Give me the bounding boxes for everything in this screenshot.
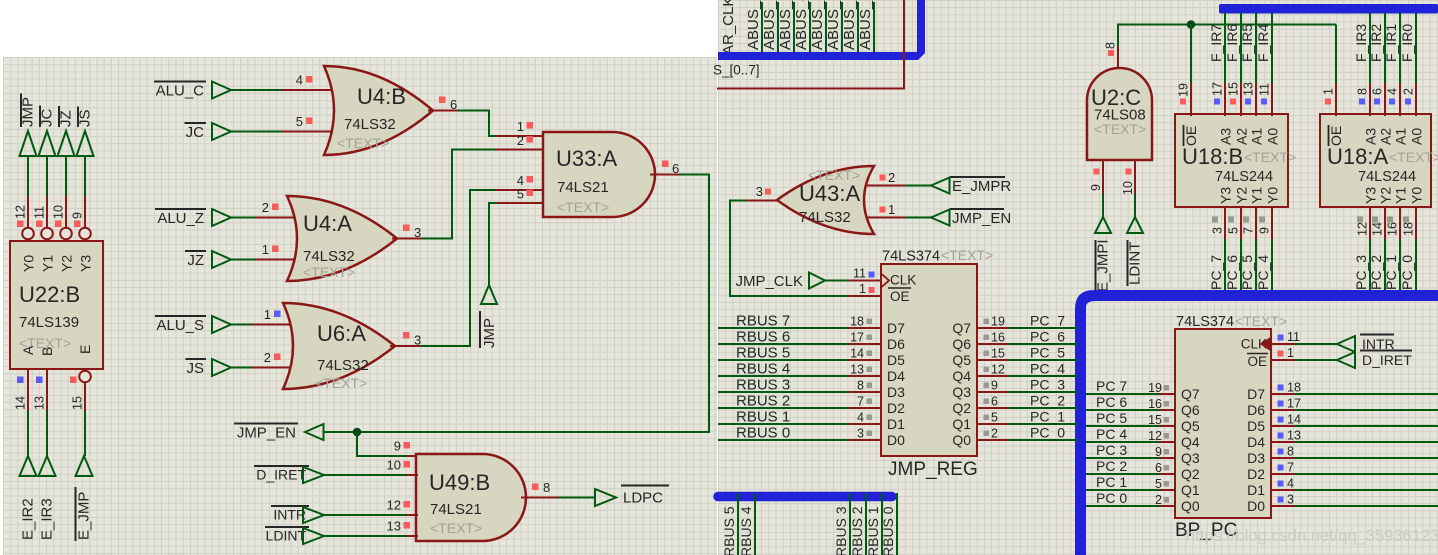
wire JMP_REG Q2 to PC bus / net PC_2 — [977, 393, 1078, 409]
svg-text:2: 2 — [1155, 493, 1162, 507]
svg-text:8: 8 — [857, 379, 864, 393]
svg-text:Q7: Q7 — [952, 320, 971, 336]
svg-text:18: 18 — [1287, 381, 1301, 395]
svg-text:D4: D4 — [887, 368, 905, 384]
svg-text:A1: A1 — [1393, 128, 1409, 145]
svg-text:Q6: Q6 — [952, 336, 971, 352]
svg-text:74LS374: 74LS374 — [1176, 314, 1234, 330]
svg-text:5: 5 — [1155, 477, 1162, 491]
U6:A pin 2 label — [264, 350, 281, 365]
svg-text:9: 9 — [991, 379, 998, 393]
svg-text:9: 9 — [1089, 184, 1103, 191]
svg-text:<TEXT>: <TEXT> — [315, 375, 367, 391]
svg-text:A3: A3 — [1218, 128, 1234, 145]
svg-text:14: 14 — [14, 396, 28, 410]
wire PC 6 from bus to BP_PC Q6 — [1086, 394, 1175, 411]
wire U33:A.6 to JMP_EN net — [324, 175, 709, 433]
wire PC 5 from bus to BP_PC Q5 — [1086, 410, 1175, 427]
svg-text:A3: A3 — [1363, 128, 1379, 145]
svg-text:OE: OE — [1247, 354, 1267, 369]
or-gate U6:A 74LS32 — [283, 303, 395, 391]
svg-text:LDINT: LDINT — [266, 528, 307, 544]
svg-text:PC_1: PC_1 — [1030, 409, 1065, 425]
U2:C pin 9 input — [1089, 159, 1103, 218]
svg-text:D2: D2 — [887, 400, 905, 416]
svg-text:PC_5: PC_5 — [1030, 345, 1065, 361]
svg-text:Q5: Q5 — [952, 352, 971, 368]
svg-text:Q2: Q2 — [1181, 466, 1200, 482]
svg-text:Q4: Q4 — [952, 368, 971, 384]
svg-text:6: 6 — [1155, 461, 1162, 475]
svg-text:A: A — [20, 345, 36, 355]
svg-text:14: 14 — [1371, 222, 1385, 236]
svg-text:ABUS_5: ABUS_5 — [777, 0, 794, 50]
U4:B pin 6 output — [428, 97, 458, 113]
wire U4:B.6 to U33:A.1 — [458, 111, 543, 137]
svg-text:JMP_EN: JMP_EN — [952, 210, 1011, 227]
wire BP_PC CLK to INTR — [1271, 343, 1337, 345]
svg-text:ABUS_7: ABUS_7 — [745, 0, 762, 50]
or-gate U43:A 74LS32 (mirrored) — [777, 166, 874, 234]
svg-text:https://blog.csdn.net/qq_35936: https://blog.csdn.net/qq_35936123 — [1186, 527, 1438, 545]
svg-text:PC_3: PC_3 — [1353, 255, 1369, 290]
U6:A pin 1 label — [264, 307, 281, 322]
svg-text:PC_1: PC_1 — [1383, 255, 1399, 290]
wire JMP_REG Q5 to PC bus / net PC_5 — [977, 345, 1078, 361]
svg-text:13: 13 — [850, 363, 864, 377]
svg-text:PC_6: PC_6 — [1030, 329, 1065, 345]
bus entry ABUS_0 — [857, 0, 874, 53]
svg-text:8: 8 — [543, 480, 550, 495]
svg-text:4: 4 — [1287, 477, 1294, 491]
wire JMP_CLK to JMP_REG CLK — [825, 280, 881, 282]
U18:A pin 6 / net F_IR2 — [1368, 13, 1385, 116]
U18:A pin 2 / net F_IR0 — [1399, 13, 1416, 116]
junction at U18:B OE branch — [1187, 20, 1196, 29]
svg-text:F_IR7: F_IR7 — [1208, 24, 1224, 62]
svg-text:D1: D1 — [1247, 482, 1265, 498]
svg-text:9: 9 — [394, 439, 401, 454]
svg-text:RBUS 5: RBUS 5 — [736, 345, 790, 362]
svg-text:13: 13 — [387, 519, 401, 534]
svg-text:1: 1 — [262, 242, 269, 257]
terminal ALU_S (input) — [155, 316, 231, 334]
svg-text:JC: JC — [39, 109, 56, 128]
svg-text:2: 2 — [517, 133, 524, 148]
svg-text:A2: A2 — [1234, 128, 1250, 145]
bus PC (right) — [1075, 290, 1438, 555]
svg-text:ABUS_4: ABUS_4 — [793, 0, 810, 50]
U33:A pin 1 label — [517, 119, 533, 134]
svg-text:4: 4 — [296, 73, 303, 88]
bus entry ABUS_1 — [841, 0, 858, 53]
svg-text:D5: D5 — [1247, 418, 1265, 434]
svg-text:15: 15 — [1148, 413, 1162, 427]
terminal JMP_EN (right) — [931, 209, 1011, 227]
svg-text:13: 13 — [1242, 82, 1256, 96]
svg-text:Y0: Y0 — [1409, 187, 1425, 204]
bus entry ABUS_6 — [761, 0, 778, 53]
wire BP_PC D7 to right edge — [1271, 381, 1438, 395]
svg-text:E_JMPR: E_JMPR — [952, 178, 1011, 195]
svg-text:6: 6 — [991, 395, 998, 409]
svg-text:PC_3: PC_3 — [1030, 377, 1065, 393]
U33:A pin 5 label — [517, 187, 533, 202]
bus entry ABUS_5 — [777, 0, 794, 53]
wire RBUS 4 to JMP_REG D4 — [718, 361, 881, 378]
svg-text:JS: JS — [186, 360, 204, 377]
svg-text:F_IR4: F_IR4 — [1255, 24, 1271, 62]
svg-text:7: 7 — [1287, 461, 1294, 475]
svg-text:PC_2: PC_2 — [1368, 255, 1384, 290]
svg-text:RBUS 3: RBUS 3 — [833, 506, 849, 555]
svg-text:<TEXT>: <TEXT> — [337, 135, 389, 151]
wire BP_PC D6 to right edge — [1271, 397, 1438, 411]
wire ALU_C — [231, 89, 338, 91]
svg-text:74LS21: 74LS21 — [557, 179, 609, 196]
svg-text:D2: D2 — [1247, 466, 1265, 482]
svg-text:3: 3 — [414, 225, 421, 240]
terminal LDPC — [595, 486, 669, 507]
svg-text:F_IR3: F_IR3 — [1353, 24, 1369, 62]
svg-text:ABUS_0: ABUS_0 — [857, 0, 874, 50]
bus entry RBUS 1 (bottom) — [865, 493, 882, 555]
svg-text:11: 11 — [853, 267, 866, 281]
U18:A pin 16 / net PC_1 — [1383, 206, 1400, 292]
U22:B pin 13 (bottom) — [33, 369, 48, 456]
wire RBUS 5 to JMP_REG D5 — [718, 345, 881, 362]
svg-text:PC_4: PC_4 — [1030, 361, 1065, 377]
svg-text:2: 2 — [1402, 88, 1416, 95]
svg-text:PC 7: PC 7 — [1096, 378, 1127, 394]
U22:B pin 15 (bottom) — [70, 377, 85, 457]
wire BP_PC D4 to right edge — [1271, 429, 1438, 443]
svg-text:JMP_CLK: JMP_CLK — [735, 273, 803, 290]
svg-text:ABUS_1: ABUS_1 — [841, 0, 858, 50]
svg-text:3: 3 — [857, 427, 864, 441]
svg-text:4: 4 — [1386, 88, 1400, 95]
bus entry ABUS_4 — [793, 0, 810, 53]
svg-text:ALU_C: ALU_C — [156, 83, 205, 100]
svg-text:19: 19 — [991, 315, 1005, 329]
svg-text:Q3: Q3 — [1181, 450, 1200, 466]
terminal JC (input, top-left) — [39, 106, 56, 157]
U4:A pin 3 output — [392, 225, 422, 241]
svg-text:<TEXT>: <TEXT> — [1244, 149, 1296, 165]
terminal JZ (input, top-left) — [58, 106, 75, 156]
svg-text:A0: A0 — [1265, 128, 1281, 145]
svg-text:17: 17 — [850, 331, 864, 345]
svg-text:10: 10 — [52, 205, 66, 219]
svg-text:9: 9 — [1258, 227, 1272, 234]
svg-text:U4:B: U4:B — [357, 84, 406, 109]
bus entry RBUS 0 (bottom) — [880, 493, 897, 555]
svg-text:Q2: Q2 — [952, 400, 971, 416]
svg-text:1: 1 — [888, 202, 895, 217]
wire INTR to U49:B — [324, 514, 418, 516]
bus entry ABUS_7 — [745, 0, 762, 53]
U18:A pin 4 / net F_IR1 — [1383, 13, 1400, 116]
svg-text:D6: D6 — [1247, 402, 1265, 418]
wire JMP to U22:B — [27, 156, 29, 228]
svg-text:16: 16 — [1386, 222, 1400, 236]
buffer U18:A 74LS244 — [1320, 114, 1438, 207]
wire BP_PC D1 to right edge — [1271, 477, 1438, 491]
wire JC — [231, 131, 338, 133]
svg-text:ABUS_6: ABUS_6 — [761, 0, 778, 50]
U18:B pin 7 / net PC_5 — [1239, 206, 1256, 292]
wire JZ to U22:B — [65, 156, 67, 228]
svg-text:5: 5 — [517, 187, 524, 202]
U18:A pin 12 / net PC_3 — [1353, 206, 1370, 292]
terminal D_IRET (right) — [1337, 351, 1412, 369]
svg-text:D6: D6 — [887, 336, 905, 352]
svg-text:PC_7: PC_7 — [1208, 255, 1224, 290]
svg-text:Q3: Q3 — [952, 384, 971, 400]
svg-text:U4:A: U4:A — [303, 211, 352, 236]
svg-text:RBUS 3: RBUS 3 — [736, 377, 790, 394]
U2:C pin 10 input — [1121, 159, 1135, 218]
svg-text:A1: A1 — [1249, 128, 1265, 145]
svg-text:Q0: Q0 — [952, 432, 971, 448]
svg-text:PC 2: PC 2 — [1096, 458, 1127, 474]
bus entry ABUS_3 — [809, 0, 826, 53]
wire junction to U49:B.9 — [357, 432, 418, 456]
terminal JS (input) — [186, 359, 232, 377]
U4:B pin 5 label — [296, 114, 313, 129]
wire JMP_REG Q3 to PC bus / net PC_3 — [977, 377, 1078, 393]
svg-text:RBUS 2: RBUS 2 — [849, 506, 865, 555]
svg-text:7: 7 — [1242, 227, 1256, 234]
U18:A pin 8 / net F_IR3 — [1353, 13, 1370, 116]
or-gate U4:B 74LS32 — [324, 66, 433, 155]
svg-text:18: 18 — [1402, 222, 1416, 236]
terminal JMP (input, top-left) — [20, 94, 37, 157]
svg-text:RBUS 4: RBUS 4 — [738, 506, 754, 555]
svg-text:D0: D0 — [1247, 498, 1265, 514]
svg-text:74LS244: 74LS244 — [1358, 169, 1416, 185]
U33:A pin 2 label — [517, 133, 533, 148]
terminal E_JMP (bottom) — [76, 456, 93, 541]
bus entry ABUS_2 — [825, 0, 842, 53]
U4:A pin 2 label — [262, 200, 279, 215]
svg-text:D0: D0 — [887, 432, 905, 448]
wire U43:A.2 to E_JMPR — [866, 185, 931, 187]
svg-text:3: 3 — [756, 184, 763, 199]
svg-text:JC: JC — [186, 124, 205, 141]
svg-text:5: 5 — [991, 411, 998, 425]
bus FBUS (top-right) — [1219, 4, 1438, 14]
svg-text:B: B — [39, 347, 55, 356]
svg-text:A2: A2 — [1378, 128, 1394, 145]
svg-text:3: 3 — [1287, 493, 1294, 507]
svg-text:D1: D1 — [887, 416, 905, 432]
terminal JS (input, top-left) — [77, 107, 94, 157]
svg-text:RBUS 5: RBUS 5 — [721, 506, 737, 555]
svg-text:12: 12 — [1356, 222, 1370, 236]
svg-text:PC 1: PC 1 — [1096, 474, 1127, 490]
svg-text:2: 2 — [888, 170, 895, 185]
svg-text:Q5: Q5 — [1181, 418, 1200, 434]
terminal INTR (right) — [1337, 335, 1395, 353]
svg-text:3: 3 — [1211, 227, 1225, 234]
U4:B pin 4 label — [296, 73, 313, 88]
svg-text:JZ: JZ — [58, 110, 75, 127]
wire ALU_Z — [231, 217, 302, 219]
svg-text:D3: D3 — [1247, 450, 1265, 466]
svg-text:U6:A: U6:A — [317, 321, 366, 346]
U49:B pin 12 label — [387, 498, 410, 513]
svg-text:12: 12 — [387, 498, 401, 513]
wire LDINT to U49:B — [324, 535, 418, 537]
svg-text:OE: OE — [1328, 126, 1344, 146]
svg-text:JMP: JMP — [481, 318, 498, 348]
svg-text:Y1: Y1 — [1249, 187, 1265, 204]
svg-text:U18:A: U18:A — [1327, 144, 1388, 169]
net label AR_CLK (cut) — [720, 0, 737, 55]
svg-text:RBUS 1: RBUS 1 — [736, 409, 790, 426]
svg-text:Q7: Q7 — [1181, 386, 1200, 402]
svg-text:U18:B: U18:B — [1182, 144, 1243, 169]
U33:A pin 4 label — [517, 173, 533, 188]
svg-text:Y3: Y3 — [1218, 187, 1234, 204]
svg-text:8: 8 — [1287, 445, 1294, 459]
wire BP_PC D0 to right edge — [1271, 493, 1438, 507]
U18:B pin 3 / net PC_7 — [1208, 206, 1225, 292]
svg-text:ALU_Z: ALU_Z — [157, 210, 204, 227]
svg-text:12: 12 — [14, 205, 28, 219]
U18:B OE pin 19 — [1177, 83, 1192, 116]
wire RBUS 2 to JMP_REG D2 — [718, 393, 881, 410]
wire PC 2 from bus to BP_PC Q2 — [1086, 458, 1175, 475]
wire BP_PC OE to D_IRET — [1271, 359, 1337, 361]
svg-text:8: 8 — [1356, 88, 1370, 95]
watermark — [1186, 527, 1438, 545]
svg-text:17: 17 — [1287, 397, 1301, 411]
wire (dark red) top frame — [717, 0, 904, 89]
svg-text:PC 3: PC 3 — [1096, 442, 1127, 458]
wire U33:A.5 to JMP terminal — [489, 203, 543, 285]
junction on JMP_EN wire — [353, 428, 362, 437]
wire PC 4 from bus to BP_PC Q4 — [1086, 426, 1175, 443]
svg-text:RBUS 7: RBUS 7 — [736, 313, 790, 330]
svg-text:16: 16 — [991, 331, 1005, 345]
svg-text:E_JMPI: E_JMPI — [1095, 239, 1112, 292]
svg-text:5: 5 — [1227, 227, 1241, 234]
svg-text:Y2: Y2 — [59, 255, 75, 272]
bus RBUS (bottom-left) — [718, 492, 892, 502]
svg-text:Y3: Y3 — [78, 255, 94, 272]
wire PC 1 from bus to BP_PC Q1 — [1086, 474, 1175, 491]
svg-text:U49:B: U49:B — [429, 470, 490, 495]
svg-text:PC_4: PC_4 — [1255, 255, 1271, 290]
svg-text:6: 6 — [1371, 88, 1385, 95]
terminal E_JMPR — [931, 177, 1011, 195]
svg-text:4: 4 — [857, 411, 864, 425]
terminal D_IRET — [254, 466, 324, 483]
svg-text:14: 14 — [1287, 413, 1301, 427]
wire U43:A.1 to JMP_EN — [866, 217, 931, 219]
wire ALU_S — [231, 324, 298, 326]
svg-text:15: 15 — [71, 396, 85, 410]
svg-text:19: 19 — [1148, 381, 1162, 395]
svg-text:Y3: Y3 — [1363, 187, 1379, 204]
svg-text:F_IR1: F_IR1 — [1383, 24, 1399, 62]
wire JC to U22:B — [46, 156, 48, 228]
svg-text:PC_2: PC_2 — [1030, 393, 1065, 409]
svg-text:74LS374: 74LS374 — [882, 249, 940, 265]
svg-text:U33:A: U33:A — [556, 146, 617, 171]
JMP_REG pin 1 label — [859, 282, 874, 296]
svg-text:9: 9 — [1155, 445, 1162, 459]
wire to U18:A OE — [1335, 25, 1337, 117]
wire JS to U22:B — [84, 156, 86, 228]
svg-text:Y2: Y2 — [1378, 187, 1394, 204]
U18:B pin 5 / net PC_6 — [1224, 206, 1241, 292]
svg-text:E: E — [77, 345, 93, 354]
svg-text:INTR: INTR — [273, 507, 306, 523]
wire BP_PC D2 to right edge — [1271, 461, 1438, 475]
svg-text:RBUS 1: RBUS 1 — [865, 506, 881, 555]
terminal E_IR2 (bottom) — [20, 456, 37, 540]
svg-text:1: 1 — [1287, 346, 1294, 360]
svg-text:74LS32: 74LS32 — [344, 116, 396, 133]
wire JMP_REG Q7 to PC bus / net PC_7 — [977, 313, 1078, 329]
svg-text:U22:B: U22:B — [19, 282, 80, 307]
svg-text:11: 11 — [1258, 83, 1272, 96]
svg-text:D7: D7 — [1247, 386, 1265, 402]
U33:A pin 6 output — [650, 161, 680, 177]
U18:B pin 15 / net F_IR6 — [1224, 13, 1241, 116]
svg-text:<TEXT>: <TEXT> — [1094, 121, 1146, 137]
U18:B pin 11 / net F_IR4 — [1255, 13, 1272, 116]
wire branch to U18:B OE — [1190, 25, 1192, 117]
U43:A pin 1 label — [880, 202, 896, 217]
svg-text:D_IRET: D_IRET — [1362, 352, 1412, 368]
terminal LDINT (right panel) — [1127, 217, 1144, 286]
bus entry RBUS 2 (bottom) — [849, 493, 866, 555]
svg-text:PC 4: PC 4 — [1096, 426, 1127, 442]
U22:B pin 12 label — [14, 205, 28, 227]
U18:B pin 17 / net F_IR7 — [1208, 13, 1225, 116]
svg-text:RBUS 0: RBUS 0 — [736, 425, 790, 442]
svg-text:11: 11 — [1287, 330, 1300, 344]
wire RBUS 6 to JMP_REG D6 — [718, 329, 881, 346]
svg-text:D5: D5 — [887, 352, 905, 368]
wire PC 3 from bus to BP_PC Q3 — [1086, 442, 1175, 459]
wire RBUS 0 to JMP_REG D0 — [718, 425, 881, 442]
svg-text:74LS32: 74LS32 — [799, 209, 851, 226]
wire U6:A.3 to U33:A.4 — [420, 190, 543, 346]
svg-text:E_JMP: E_JMP — [76, 492, 93, 540]
terminal ALU_C (input) — [154, 82, 231, 100]
svg-text:PC 0: PC 0 — [1096, 490, 1127, 506]
svg-text:12: 12 — [991, 363, 1005, 377]
svg-text:13: 13 — [1287, 429, 1301, 443]
svg-text:16: 16 — [1148, 397, 1162, 411]
and-gate U49:B 74LS21 — [416, 454, 526, 541]
svg-text:LDINT: LDINT — [1127, 242, 1144, 285]
BP_PC pin 11 label — [1278, 330, 1301, 344]
terminal E_JMPI — [1095, 217, 1112, 293]
svg-text:74LS32: 74LS32 — [303, 248, 355, 265]
svg-text:PC_0: PC_0 — [1030, 425, 1065, 441]
svg-text:1: 1 — [859, 282, 866, 296]
terminal INTR — [271, 506, 324, 523]
bus ABUS (top-left) — [718, 0, 925, 60]
svg-text:Q1: Q1 — [1181, 482, 1200, 498]
svg-text:Q6: Q6 — [1181, 402, 1200, 418]
